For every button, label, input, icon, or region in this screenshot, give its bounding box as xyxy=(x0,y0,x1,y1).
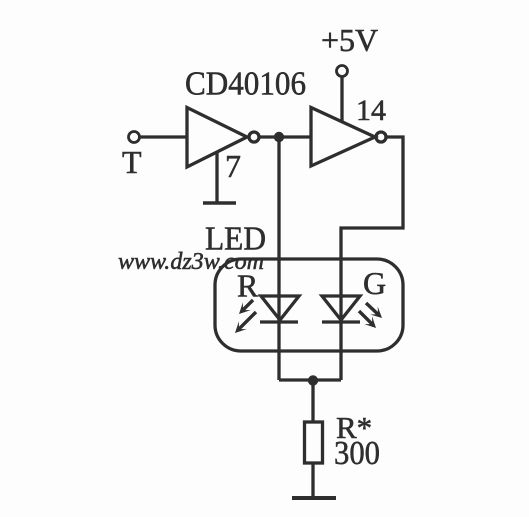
+5V supply terminal xyxy=(337,66,348,77)
LED G cathode bar xyxy=(322,320,360,323)
LED R cathode bar xyxy=(260,320,298,323)
output bubble U1B xyxy=(376,132,386,142)
LED R emission arrow 2 xyxy=(235,312,256,333)
svg-text:www.dz3w.com: www.dz3w.com xyxy=(118,249,264,275)
LED G emission arrow 2 xyxy=(359,311,376,328)
wire input T to inverter U1A xyxy=(140,135,187,138)
svg-text:CD40106: CD40106 xyxy=(185,66,306,103)
node junction dot A xyxy=(274,132,284,142)
dual LED package outline xyxy=(215,259,403,351)
wire U1B output loop to LED G xyxy=(341,137,403,380)
input terminal T xyxy=(129,132,140,143)
inverter U1B (CD40106 gate) xyxy=(311,108,375,167)
wire resistor to ground xyxy=(311,463,314,497)
ground (pin 7) xyxy=(203,201,236,205)
node junction dot B xyxy=(308,375,318,385)
LED G (diode triangle) xyxy=(322,296,360,320)
wire U1A output to U1B input xyxy=(260,135,311,138)
ground (bottom) xyxy=(292,496,336,500)
output bubble U1A xyxy=(249,132,259,142)
wire LED cathodes joined xyxy=(279,378,341,381)
LED G emission arrow 1 xyxy=(366,303,382,318)
resistor R* 300 xyxy=(305,422,323,463)
svg-text:T: T xyxy=(122,144,142,180)
svg-text:7: 7 xyxy=(225,148,241,184)
wire +5V to inverter U1B pin 14 xyxy=(340,77,343,122)
svg-text:300: 300 xyxy=(334,435,380,472)
svg-text:+5V: +5V xyxy=(321,22,378,58)
wire node B to resistor R* xyxy=(311,380,314,422)
inverter U1A (CD40106 gate) xyxy=(187,108,247,168)
LED R (diode triangle) xyxy=(261,296,299,320)
LED R emission arrow 1 xyxy=(239,300,253,314)
wire node A down to LED R xyxy=(277,137,280,380)
pin 7 stub xyxy=(215,152,218,202)
svg-text:14: 14 xyxy=(356,94,386,127)
svg-text:G: G xyxy=(363,265,386,301)
